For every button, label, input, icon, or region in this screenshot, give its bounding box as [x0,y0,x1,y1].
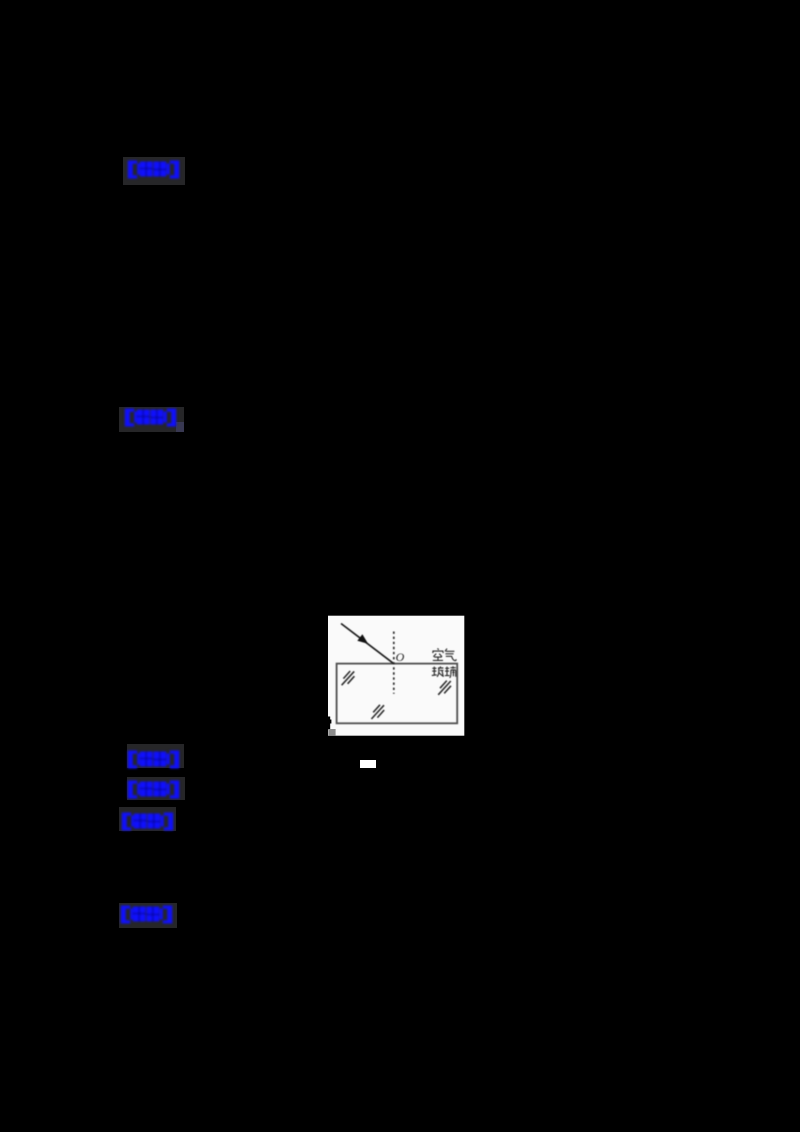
label L3 gray highlight box [127,744,184,768]
glass label 玻璃 [432,666,456,678]
label L1 gray highlight box [123,157,185,185]
label L3 blue text 【考点】 [127,749,180,769]
white answer dash [360,760,376,768]
shared blue label glyph definition [0,0,1,1]
glass block rectangle [337,664,458,724]
label L2 blue text 【点评】 [124,407,177,427]
label L6 gray highlight box [119,903,177,928]
label L4 blue text 【专题】 [127,779,180,799]
incident ray arrowhead [357,634,368,644]
incident ray [341,624,394,664]
label L1 blue text 【解答】 [127,159,180,179]
normal dotted line [393,632,395,694]
air label 空气 [432,648,456,660]
label L2 trailing selection patch [176,422,184,432]
hatch mark right [438,681,451,695]
label L2 gray highlight box [119,407,184,432]
figure white background [328,616,464,736]
label L5 blue text 【分析】 [121,811,174,831]
hatch mark bottom [371,705,384,719]
label L4 gray highlight box [127,777,185,800]
gray square bottom-left corner [328,729,335,736]
figure: glass refraction diagram white panel [328,615,465,736]
label L5 gray highlight box [119,807,176,831]
label L6 blue text 【解答】 [120,904,173,924]
svg-text:O: O [396,650,405,664]
black notch on figure left edge [328,717,330,730]
hatch mark left [342,671,355,685]
